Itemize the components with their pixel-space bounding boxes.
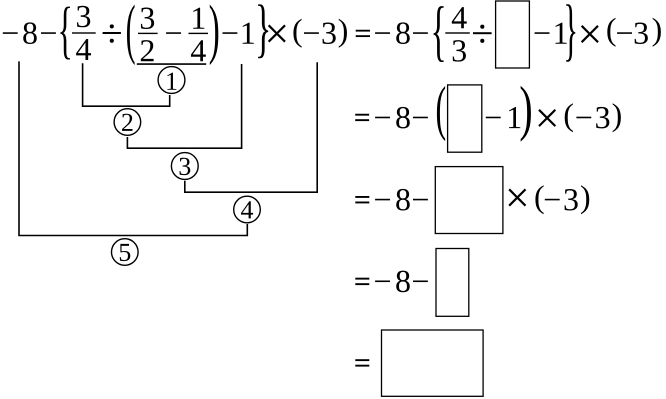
- times: [508, 189, 526, 207]
- digit 8: [396, 107, 410, 129]
- minus: [413, 199, 428, 201]
- equals: [355, 359, 369, 366]
- fraction 1/4: [193, 8, 204, 29]
- digit 3: [635, 23, 648, 44]
- digit 1: [555, 23, 566, 44]
- numeral 1: [167, 73, 176, 90]
- digit 3: [596, 107, 609, 129]
- times: [538, 109, 556, 127]
- close paren: [653, 18, 661, 47]
- bracket step 4: [185, 62, 317, 192]
- digit 8: [396, 271, 410, 293]
- numeral 4: [241, 201, 253, 218]
- fraction 4/3: [452, 7, 467, 28]
- ) of (-3): [339, 19, 347, 48]
- right-side right curly brace (stretched): [566, 4, 575, 61]
- equals: [355, 196, 369, 203]
- open paren of (-3): [565, 103, 573, 132]
- numeral 5: [120, 244, 130, 261]
- open paren of (-3): [607, 18, 615, 47]
- bracket step 3: [127, 64, 241, 148]
- underline step 1: [137, 63, 206, 65]
- minus of (-3): [576, 117, 591, 119]
- right-side left curly brace (stretched): [434, 6, 444, 62]
- digit 8: [23, 22, 37, 44]
- bracket step 5: [19, 61, 247, 235]
- fraction 3/4: [77, 6, 90, 28]
- circle 5: [112, 239, 139, 266]
- stretched left paren row2: [437, 86, 445, 141]
- circle 4: [234, 196, 261, 223]
- minus: [375, 199, 390, 201]
- minus: [375, 32, 390, 34]
- answer box 4: [436, 249, 469, 317]
- fraction 3/2: [141, 8, 154, 30]
- minus 3: [304, 32, 319, 34]
- times sign: [581, 25, 599, 43]
- equals: [355, 114, 369, 121]
- minus: [166, 32, 181, 34]
- stretched right paren row2: [521, 86, 531, 142]
- minus: [222, 32, 237, 34]
- digit 3: [323, 23, 336, 44]
- numeral 2: [122, 114, 132, 131]
- digit 8: [396, 22, 410, 44]
- answer box 2: [448, 85, 482, 152]
- minus of (-3): [545, 199, 560, 201]
- minus 1 after box: [535, 32, 550, 34]
- circle 1: [158, 67, 185, 94]
- minus: [413, 32, 428, 34]
- digit 1: [509, 107, 520, 128]
- right paren (stretched): [210, 5, 219, 66]
- minus 1 after box2: [486, 117, 501, 119]
- circle 3: [171, 153, 198, 180]
- division sign: [473, 25, 492, 43]
- close paren: [581, 185, 589, 214]
- times sign: [268, 25, 286, 43]
- minus: [413, 280, 428, 282]
- digit 3: [565, 189, 578, 211]
- minus: [375, 280, 390, 282]
- minus: [41, 32, 56, 34]
- bracket step 2: [83, 63, 170, 106]
- ( of (-3): [293, 19, 301, 48]
- digit 8: [396, 189, 410, 211]
- answer box 3: [435, 167, 503, 234]
- equals: [355, 278, 369, 285]
- left paren (stretched): [127, 5, 135, 66]
- digit 1: [243, 23, 254, 44]
- answer box 5: [382, 330, 484, 396]
- minus before 8: [3, 32, 18, 34]
- close paren: [613, 103, 621, 132]
- minus: [413, 117, 428, 119]
- numeral 3: [180, 158, 191, 175]
- left curly brace (stretched): [60, 7, 70, 60]
- circle 2: [114, 109, 141, 136]
- right curly brace (stretched): [258, 4, 268, 58]
- open paren of (-3): [535, 185, 543, 214]
- minus of (-3): [617, 32, 632, 34]
- answer box 1: [496, 1, 530, 68]
- minus: [375, 117, 390, 119]
- equals: [356, 30, 370, 37]
- division sign: [103, 24, 121, 42]
